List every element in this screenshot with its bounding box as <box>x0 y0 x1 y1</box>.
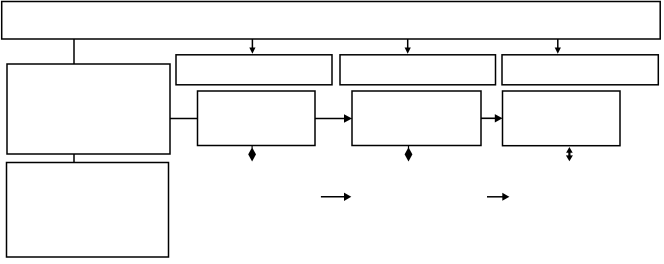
diamond connector below box 1 <box>248 146 256 162</box>
down arrow 2 <box>405 39 411 54</box>
arrow box1 to box2 <box>315 114 352 122</box>
down arrow 3 <box>555 39 561 54</box>
wire left box to process box 1 <box>170 118 198 120</box>
process box 2 <box>352 91 481 146</box>
process box 3 <box>503 91 621 146</box>
bottom-left box <box>7 163 169 258</box>
up-down arrow below box 3 <box>566 147 573 161</box>
wide box 1 <box>176 55 332 85</box>
floating arrow 1 <box>321 193 351 201</box>
wire banner to left box <box>73 39 75 64</box>
top banner box <box>2 2 661 40</box>
wide box 2 <box>340 55 496 85</box>
down arrow 1 <box>249 39 255 54</box>
process box 1 <box>198 91 316 146</box>
left box <box>7 64 170 154</box>
floating arrow 2 <box>487 193 509 201</box>
arrow box2 to box3 <box>481 114 503 122</box>
diamond connector below box 2 <box>405 146 413 162</box>
wide box 3 <box>502 55 658 85</box>
wire left box to bottom-left box <box>73 154 75 163</box>
